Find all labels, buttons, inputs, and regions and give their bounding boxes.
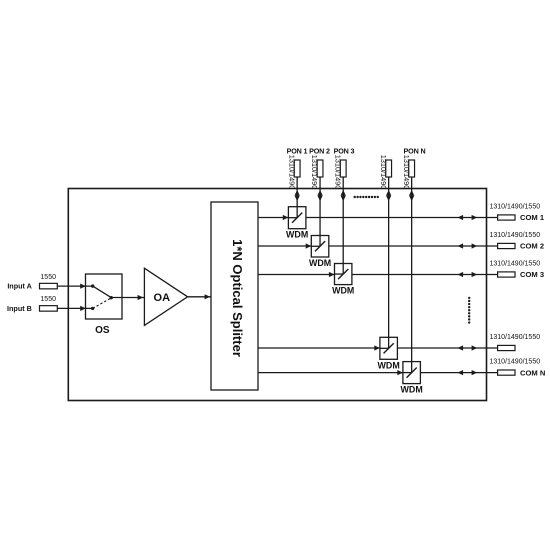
PON connector 1 xyxy=(294,160,300,177)
label COM 2 xyxy=(520,242,544,251)
svg-text:WDM: WDM xyxy=(332,286,354,296)
arrow into WDM 2 xyxy=(306,243,312,248)
PON connector 5 xyxy=(409,160,415,177)
svg-text:COM N: COM N xyxy=(520,368,545,377)
wire OS to OA xyxy=(111,295,144,300)
label PON 3 xyxy=(334,147,355,156)
PON connector 2 xyxy=(317,160,323,177)
arrow into WDM 5 xyxy=(397,370,403,375)
PON connector 4 xyxy=(386,160,392,177)
arrow into WDM 3 xyxy=(329,272,335,277)
WDM module 5 xyxy=(403,362,421,384)
label WDM 3 xyxy=(332,286,354,296)
wire input B to OS xyxy=(57,306,92,311)
WDM module 2 xyxy=(311,236,329,258)
bidirectional arrows on COM wire 4 xyxy=(458,345,478,350)
input connector A xyxy=(40,283,58,289)
svg-text:1310/1490/1550: 1310/1490/1550 xyxy=(490,334,541,341)
label PON 2 xyxy=(309,147,330,156)
COM connector 3 xyxy=(498,272,515,277)
ellipsis (more PON columns) xyxy=(354,196,379,198)
COM connector 1 xyxy=(498,215,515,220)
label 1310/1490 (vertical, PON 1) xyxy=(287,155,296,190)
label 1310/1490 (vertical, PON 5) xyxy=(402,155,411,190)
bidirectional arrows on PON wire 1 xyxy=(295,190,300,201)
wire COM row 4 (splitter to COM connector) xyxy=(258,347,498,349)
arrow into WDM 4 xyxy=(374,345,380,350)
label WDM 1 xyxy=(286,230,308,240)
COM connector 2 xyxy=(498,243,515,248)
svg-text:OA: OA xyxy=(154,292,171,304)
label 1550 (input A) xyxy=(40,274,56,281)
wire COM row 3 (splitter to COM connector) xyxy=(258,274,498,276)
label 1310/1490/1550 (row 5) xyxy=(490,359,541,366)
bidirectional arrows on COM wire 5 xyxy=(458,370,478,375)
label OS xyxy=(95,325,110,336)
label 1310/1490 (vertical, PON 3) xyxy=(333,155,342,190)
svg-text:1310/1490/1550: 1310/1490/1550 xyxy=(490,261,541,268)
OS switch contacts and pole xyxy=(91,284,113,310)
bidirectional arrows on PON wire 3 xyxy=(341,190,346,201)
wire COM row 2 (splitter to COM connector) xyxy=(258,245,498,247)
svg-text:1310/1490: 1310/1490 xyxy=(333,155,342,190)
svg-text:1310/1490: 1310/1490 xyxy=(402,155,411,190)
label COM 1 xyxy=(520,213,545,222)
svg-text:Input B: Input B xyxy=(7,304,32,313)
label 1550 (input B) xyxy=(40,296,56,303)
arrow into WDM 1 xyxy=(283,215,289,220)
label WDM 5 xyxy=(401,385,423,395)
bidirectional arrows on PON wire 4 xyxy=(386,190,391,201)
wire PON column 4 (connector down into WDM) xyxy=(388,177,390,348)
wire PON column 2 (connector down into WDM) xyxy=(319,177,321,246)
svg-text:1310/1490: 1310/1490 xyxy=(287,155,296,190)
label PON N xyxy=(403,147,425,156)
WDM module 1 xyxy=(288,207,306,229)
wire PON column 5 (connector down into WDM) xyxy=(411,177,413,373)
svg-text:1550: 1550 xyxy=(40,274,56,281)
bidirectional arrows on COM wire 3 xyxy=(458,272,478,277)
bidirectional arrows on PON wire 5 xyxy=(409,190,414,201)
svg-text:1310/1490: 1310/1490 xyxy=(310,155,319,190)
wire PON column 1 (connector down into WDM) xyxy=(296,177,298,218)
label 1310/1490/1550 (row 1) xyxy=(490,204,541,211)
WDM module 3 xyxy=(335,264,352,285)
label WDM 4 xyxy=(378,360,400,370)
COM connector 5 xyxy=(498,370,515,375)
label 1310/1490/1550 (row 2) xyxy=(490,232,541,239)
label COM N xyxy=(520,368,545,377)
svg-text:WDM: WDM xyxy=(378,360,400,370)
label 1310/1490 (vertical, PON 2) xyxy=(310,155,319,190)
label 1310/1490/1550 (row 4) xyxy=(490,334,541,341)
svg-text:1550: 1550 xyxy=(40,296,56,303)
wire COM row 1 (splitter to COM connector) xyxy=(258,217,498,219)
optical splitter U1 xyxy=(211,202,258,390)
label WDM 2 xyxy=(309,258,331,268)
optical switch OS xyxy=(86,274,123,319)
label Input B xyxy=(7,304,32,313)
label 1310/1490/1550 (row 3) xyxy=(490,261,541,268)
label COM 3 xyxy=(520,270,544,279)
svg-text:COM 3: COM 3 xyxy=(520,270,544,279)
svg-text:OS: OS xyxy=(95,325,110,336)
svg-text:1310/1490: 1310/1490 xyxy=(379,155,388,190)
bidirectional arrows on PON wire 2 xyxy=(317,190,322,201)
svg-text:1310/1490/1550: 1310/1490/1550 xyxy=(490,204,541,211)
label 1310/1490 (vertical, PON 4) xyxy=(379,155,388,190)
label PON 1 xyxy=(287,147,308,156)
svg-text:1310/1490/1550: 1310/1490/1550 xyxy=(490,232,541,239)
svg-text:WDM: WDM xyxy=(309,258,331,268)
amplifier OA xyxy=(144,268,187,325)
svg-text:1*N Optical Splitter: 1*N Optical Splitter xyxy=(230,239,245,357)
svg-text:WDM: WDM xyxy=(401,385,423,395)
svg-text:COM 1: COM 1 xyxy=(520,213,545,222)
bidirectional arrows on COM wire 2 xyxy=(458,243,478,248)
WDM module 4 xyxy=(380,337,398,359)
bidirectional arrows on COM wire 1 xyxy=(458,215,478,220)
wire PON column 3 (connector down into WDM) xyxy=(342,177,344,274)
svg-text:WDM: WDM xyxy=(286,230,308,240)
PON connector 3 xyxy=(340,160,346,177)
label Input A xyxy=(7,282,31,291)
ellipsis (more COM rows) xyxy=(468,297,470,324)
input connector B xyxy=(40,306,58,312)
wire OA to splitter xyxy=(188,294,211,299)
wire input A to OS xyxy=(57,284,92,289)
svg-text:COM 2: COM 2 xyxy=(520,242,544,251)
svg-text:1310/1490/1550: 1310/1490/1550 xyxy=(490,359,541,366)
svg-text:Input A: Input A xyxy=(7,282,31,291)
COM connector 4 xyxy=(498,345,515,350)
enclosure box xyxy=(68,189,486,401)
wire COM row 5 (splitter to COM connector) xyxy=(258,372,498,374)
